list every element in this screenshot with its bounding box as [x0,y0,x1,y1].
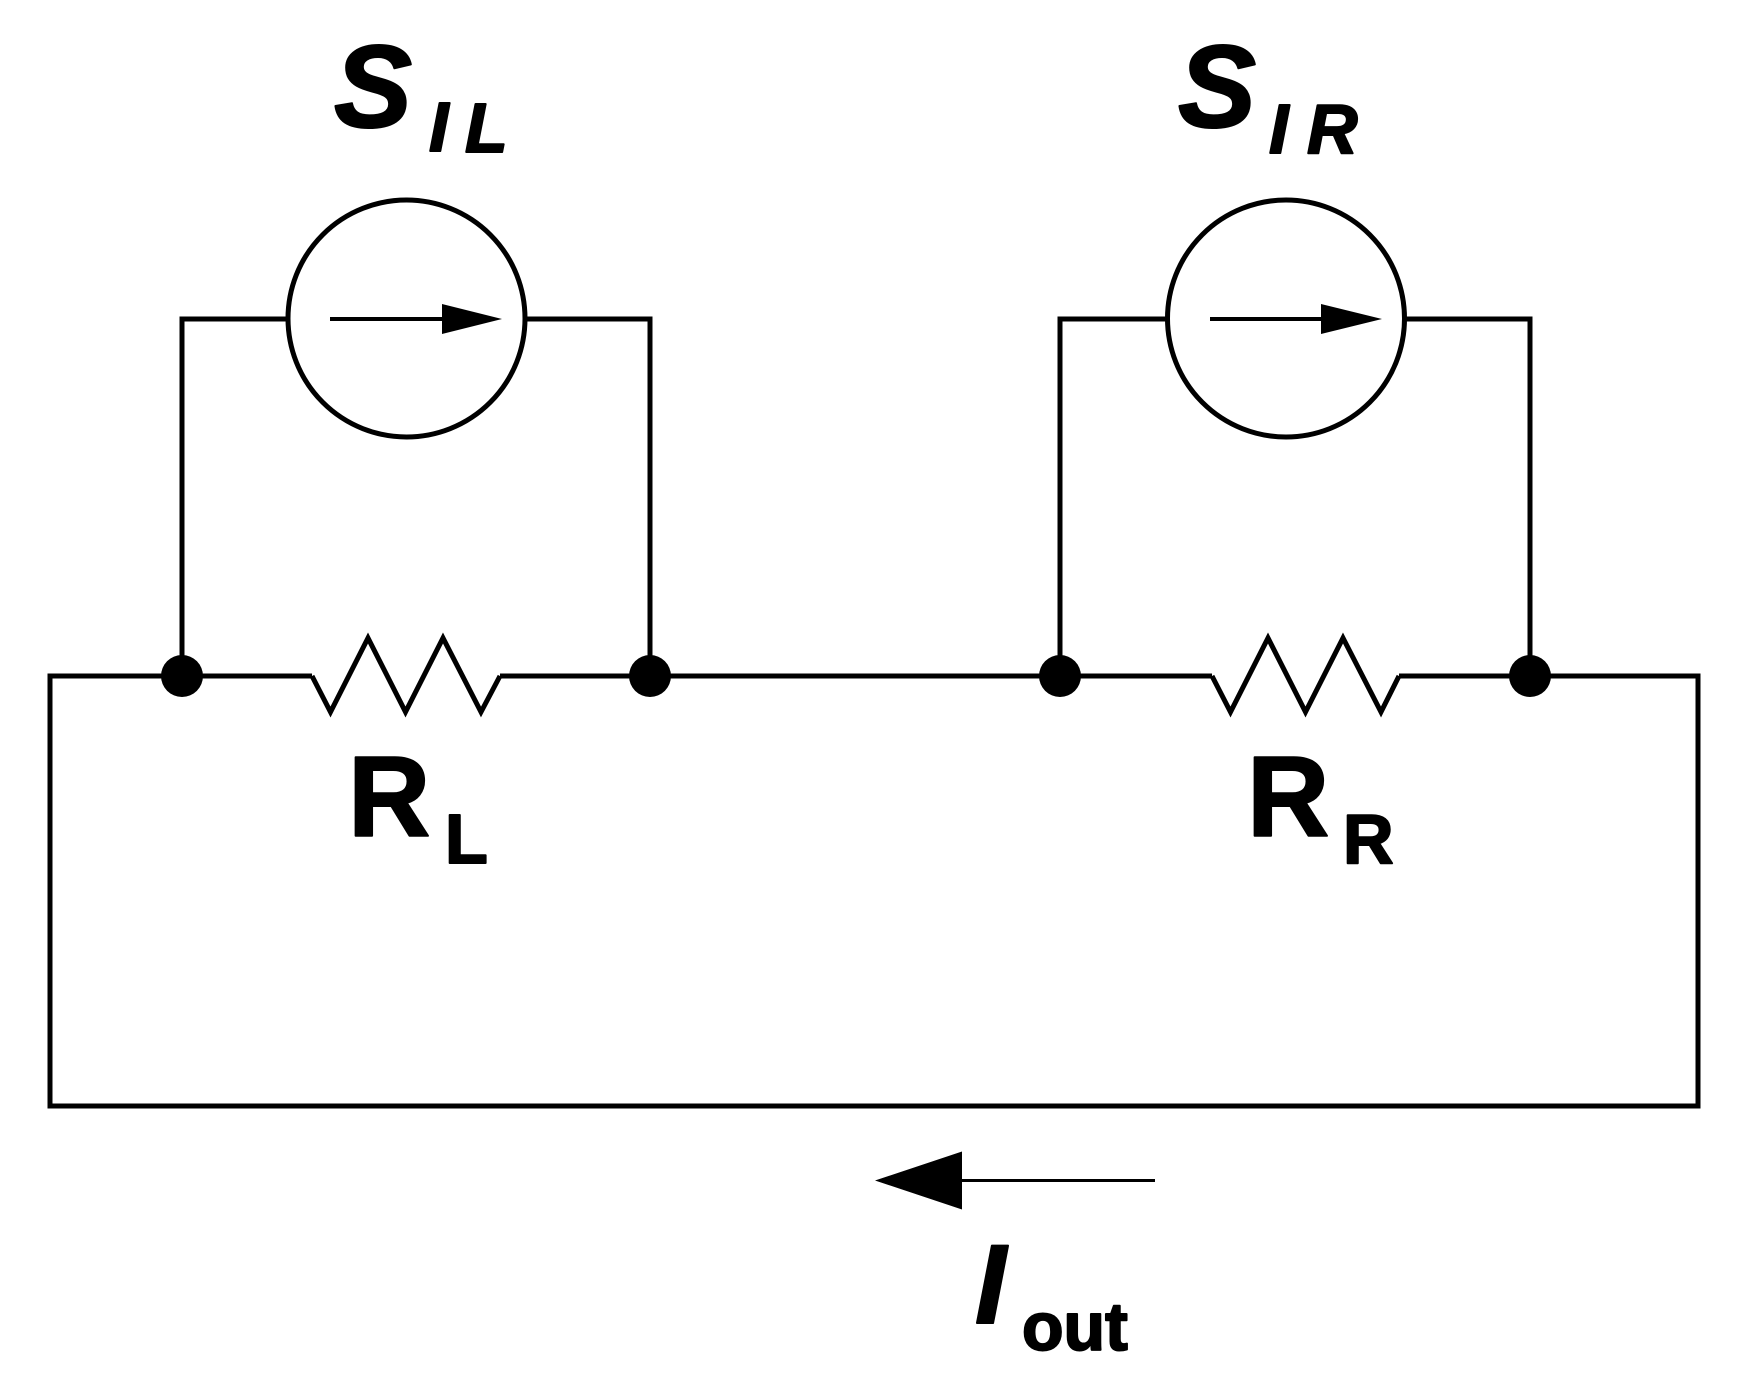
wire S_IL right stub [526,317,650,322]
wire right segment [1399,674,1698,679]
label I_out [975,1222,1128,1365]
wire left vertical drop [48,674,53,1107]
node dot right-outer [1509,655,1551,697]
svg-text:S: S [334,21,412,152]
current source S_IL circle [288,200,525,437]
label S_IR [1178,21,1358,168]
wire right vertical drop [1696,674,1701,1109]
wire S_IL right vertical [648,317,653,677]
wire bottom horizontal [48,1104,1701,1109]
svg-text:R: R [348,734,430,861]
current source S_IR arrow [1210,304,1382,334]
svg-text:I: I [429,88,450,166]
wire S_IR left stub [1060,317,1166,322]
wire S_IR right stub [1406,317,1530,322]
svg-text:R: R [1247,734,1329,861]
wire bottom-loop left segment [50,674,312,679]
svg-text:I: I [975,1222,1009,1347]
svg-text:out: out [1022,1289,1128,1365]
node dot left-outer [161,655,203,697]
resistor RL zigzag [312,638,500,712]
label S_IL [334,21,508,167]
svg-text:L: L [445,800,488,878]
svg-text:R: R [1307,90,1358,168]
svg-text:R: R [1343,800,1394,878]
wire S_IL left vertical [180,317,185,677]
node dot left-inner [629,655,671,697]
current source S_IR circle [1168,200,1405,437]
resistor RR zigzag [1212,638,1399,712]
wire middle segment [500,674,1212,679]
svg-text:L: L [465,89,508,167]
wire S_IR left vertical [1058,317,1063,677]
output current arrow I_out [875,1152,1155,1210]
current source S_IL arrow [330,304,502,334]
wire S_IL left stub [182,317,287,322]
label R_L [348,734,488,878]
wire S_IR right vertical [1528,317,1533,677]
node dot right-inner [1039,655,1081,697]
svg-text:I: I [1269,90,1290,168]
label R_R [1247,734,1394,878]
svg-text:S: S [1178,21,1256,152]
